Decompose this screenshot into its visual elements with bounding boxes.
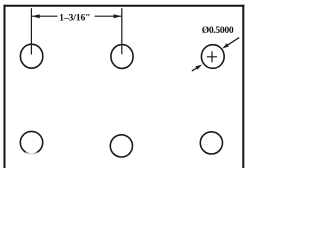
diameter leader arrowhead at circle upper-right <box>222 43 229 48</box>
svg-text:1–3/16": 1–3/16" <box>59 13 90 24</box>
diameter leader arrowhead lower-left <box>195 65 202 70</box>
diameter leader tail lower-left <box>192 68 197 71</box>
plate outline top edge <box>4 5 245 7</box>
dimension line left segment <box>32 15 58 17</box>
svg-text:Ø0.5000: Ø0.5000 <box>202 25 234 36</box>
center mark + of circle 3 <box>207 51 217 62</box>
extension line from circle 1 <box>30 8 32 54</box>
hole circle 1 (top-left) <box>20 44 42 68</box>
hole circle 4 faint bottom arc <box>34 152 37 153</box>
dimension arrowhead right <box>114 14 122 18</box>
hole circle 6 (bottom-right) <box>200 132 222 154</box>
hole circle 5 (bottom-middle) <box>110 135 132 157</box>
hole circle 3 (top-right, dimensioned) <box>201 45 224 69</box>
hole circle 4 faintest bottom arc <box>29 152 35 154</box>
hole circle 2 (top-middle) <box>111 45 133 69</box>
plate outline right edge <box>242 5 244 168</box>
dimension arrowhead left <box>32 14 40 18</box>
plate outline left edge <box>4 5 6 168</box>
dimension line right segment <box>95 15 122 17</box>
hole circle 4 (bottom-left) dark part <box>20 131 42 152</box>
extension line from circle 2 <box>121 8 123 54</box>
diameter leader line upper segment <box>227 38 239 46</box>
